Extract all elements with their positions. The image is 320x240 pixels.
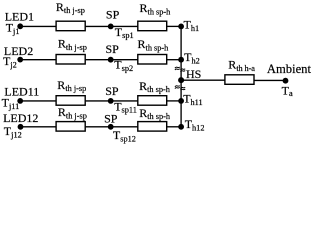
- svg-text:Ta: Ta: [282, 84, 293, 99]
- svg-text:Rth sp-h: Rth sp-h: [138, 37, 170, 52]
- break mark (upper) on bus: [175, 67, 185, 72]
- node Th11: [178, 98, 184, 104]
- wire Rth j-sp to SP12 node: [86, 126, 111, 128]
- wire SP12 node to Rth sp-h: [111, 126, 138, 128]
- svg-text:Tsp12: Tsp12: [113, 128, 136, 143]
- node SP12 (solder point 12): [108, 124, 114, 130]
- node Tj12 (LED12 junction): [18, 124, 24, 130]
- wire SP11 node to Rth sp-h: [111, 100, 138, 102]
- wire Rth j-sp to SP2 node: [86, 59, 111, 61]
- wire LED12 junction to Rth j-sp: [20, 126, 56, 128]
- resistor Rth sp-h (LED12): [138, 122, 167, 132]
- svg-text:Rth sp-h: Rth sp-h: [140, 1, 172, 16]
- node HS (heat sink): [178, 77, 184, 83]
- resistor Rth j-sp (LED2): [56, 55, 85, 65]
- wire Rth j-sp to SP11 node: [86, 100, 111, 102]
- wire Rth sp-h to node Th1: [167, 25, 181, 27]
- resistor Rth sp-h (LED1): [138, 21, 167, 31]
- wire Rth sp-h to node Th11: [167, 100, 181, 102]
- node SP11 (solder point 11): [108, 98, 114, 104]
- node Tj2 (LED2 junction): [17, 57, 23, 63]
- svg-text:Ambient: Ambient: [267, 62, 312, 76]
- svg-text:Tsp11: Tsp11: [114, 99, 137, 114]
- resistor Rth sp-h (LED2): [138, 55, 167, 65]
- svg-text:SP: SP: [106, 42, 120, 56]
- wire Rth sp-h to node Th12: [167, 126, 181, 128]
- svg-text:Th11: Th11: [183, 92, 202, 107]
- node SP2 (solder point 2): [108, 57, 114, 63]
- wire SP1 node to Rth sp-h: [111, 25, 138, 27]
- break mark (lower) on bus: [175, 86, 185, 91]
- wire heat-sink vertical bus (Th1-Th2-HS-Th11-Th12): [180, 26, 182, 126]
- wire Rth j-sp to SP1 node: [86, 25, 111, 27]
- resistor Rth h-a: [225, 75, 254, 85]
- node Th2: [178, 57, 184, 63]
- svg-text:Rth h-a: Rth h-a: [228, 58, 255, 73]
- svg-text:Rth sp-h: Rth sp-h: [139, 79, 171, 94]
- node SP1 (solder point 1): [108, 24, 114, 30]
- wire Rth h-a to ambient node: [254, 79, 286, 81]
- svg-text:Rth j-sp: Rth j-sp: [56, 0, 85, 15]
- wire LED11 junction to Rth j-sp: [20, 100, 56, 102]
- resistor Rth sp-h (LED11): [138, 96, 167, 106]
- wire LED2 junction to Rth j-sp: [20, 59, 56, 61]
- node Tj11 (LED11 junction): [17, 98, 23, 104]
- svg-text:SP: SP: [105, 84, 119, 98]
- svg-text:Rth sp-h: Rth sp-h: [139, 106, 171, 121]
- svg-text:Rth j-sp: Rth j-sp: [58, 36, 87, 51]
- svg-text:Rth j-sp: Rth j-sp: [57, 78, 86, 93]
- svg-text:Rth j-sp: Rth j-sp: [58, 105, 87, 120]
- svg-text:Th12: Th12: [185, 117, 205, 132]
- svg-text:SP: SP: [106, 7, 120, 21]
- node Ta (ambient): [283, 78, 289, 84]
- wire Rth sp-h to node Th2: [167, 59, 181, 61]
- resistor Rth j-sp (LED11): [56, 96, 85, 106]
- node Th12: [178, 124, 184, 130]
- svg-text:LED11: LED11: [4, 85, 39, 99]
- svg-text:Tsp1: Tsp1: [115, 25, 134, 40]
- node Tj1 (LED1 junction): [17, 23, 23, 29]
- svg-text:SP: SP: [104, 111, 118, 125]
- wire HS to Rth h-a: [181, 79, 225, 81]
- wire LED1 junction to Rth j-sp: [20, 25, 56, 27]
- resistor Rth j-sp (LED1): [56, 21, 85, 31]
- svg-text:Th1: Th1: [184, 17, 200, 32]
- svg-text:Th2: Th2: [184, 50, 200, 65]
- node Th1: [178, 24, 184, 30]
- wire SP2 node to Rth sp-h: [111, 59, 138, 61]
- resistor Rth j-sp (LED12): [56, 122, 85, 132]
- svg-text:HS: HS: [186, 67, 201, 81]
